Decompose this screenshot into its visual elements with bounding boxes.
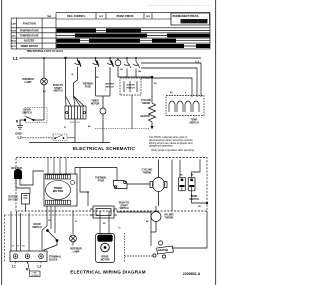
svg-text:MOTOR: MOTOR [53,189,63,193]
svg-text:SWITCH: SWITCH [105,86,114,88]
wires: console top to timer [48,158,66,175]
svg-text:Verify proper operation after: Verify proper operation after servicing. [151,148,195,152]
wire: lamp to door switch [43,85,45,120]
timer chart row 4 bars (timer motor) [56,44,210,48]
interior lamp (schematic) [41,78,48,85]
drive motor (wiring) [96,234,115,263]
wires: console to cabinet drops [47,191,208,248]
thermal fuse branch (schematic) [93,58,114,108]
heater element (schematic) [118,76,156,129]
wire: fuse to cycling therm [127,183,150,185]
push-to-start switch (wiring) [90,206,117,218]
svg-text:MOTOR: MOTOR [101,258,110,261]
door switch dashed enclosure (schematic) [25,108,47,123]
timer contact bank (schematic) [65,96,86,143]
svg-text:SWITCH: SWITCH [126,87,135,89]
wires into terminal block [11,211,47,251]
svg-text:TEMPERATURE: TEMPERATURE [20,35,39,38]
svg-text:THERMAL: THERMAL [82,83,94,86]
svg-text:OFF: OFF [99,16,104,18]
svg-text:TIMER MOTOR: TIMER MOTOR [20,45,38,48]
timer motor (schematic) [100,108,106,143]
svg-text:L1: L1 [12,265,16,269]
svg-text:CYCLING: CYCLING [141,100,152,102]
timer chart row 1 bars (temperature) [56,29,210,33]
svg-text:54321: 54321 [70,121,81,124]
svg-text:BUZZER: BUZZER [8,197,18,199]
push-to-start switch (schematic) [65,57,81,96]
centrifugal switch label (schematic) [105,84,115,89]
interior lamp (wiring) [70,235,77,245]
wire: motor switch to boundary [131,95,133,129]
svg-text:SWITCH: SWITCH [119,208,128,210]
svg-text:CENTRIF.: CENTRIF. [105,84,115,86]
svg-text:MOTOR: MOTOR [91,103,100,105]
svg-text:CAM: CAM [12,22,17,25]
timer chart row labels [11,29,39,48]
svg-text:SWITCH: SWITCH [22,111,32,114]
svg-text:SWITCH: SWITCH [189,122,198,124]
svg-text:W: W [75,221,77,223]
svg-text:HEATER: HEATER [158,249,168,252]
svg-text:OFF: OFF [146,16,151,18]
wire: motor dashed return [124,233,126,262]
wire: buzzer leads [16,182,30,194]
svg-text:2209831 A: 2209831 A [183,272,201,276]
wire: lamp branch [43,58,45,78]
svg-text:THERM.: THERM. [142,171,151,174]
svg-text:L2: L2 [38,265,42,269]
svg-text:W: W [72,74,74,76]
wire color labels (wiring) [49,175,202,226]
svg-text:BLOCK: BLOCK [49,259,58,262]
timer chart frame [11,13,210,49]
junction dots on top rail [43,57,137,59]
svg-text:HEATER: HEATER [140,115,150,118]
svg-text:ELECTRICAL SCHEMATIC: ELECTRICAL SCHEMATIC [73,146,136,151]
timer chart row 3 bars (buzzer) [56,39,210,43]
console dashed enclosure [16,158,207,212]
dashed boundary (schematic cabinet) [95,128,150,130]
cabinet dashed border [5,214,101,216]
svg-text:THERM.: THERM. [142,103,151,105]
timer chart row 2 bars (aux temperature) [56,34,210,38]
svg-text:ON / OFF: ON / OFF [8,199,19,201]
svg-text:BUZZ: BUZZ [11,41,17,43]
timer chart header labels [12,15,151,25]
svg-text:L1: L1 [13,56,19,61]
svg-text:SWITCH: SWITCH [32,226,42,229]
nested wires to temp selector [141,63,201,97]
ground screw tag [28,262,41,277]
motor switch box (schematic) [120,58,141,95]
svg-text:PERMANENT PRESS: PERMANENT PRESS [173,14,199,18]
svg-text:SWITCH: SWITCH [53,91,62,93]
svg-text:HIGH: HIGH [11,30,16,32]
svg-text:FUNCTION: FUNCTION [23,22,36,25]
svg-text:SCREW: SCREW [31,275,39,277]
drive motor circle (schematic) [115,58,121,77]
svg-text:MTR.: MTR. [11,46,16,48]
wire: left drop to door switch [80,168,88,206]
svg-text:START: START [54,87,62,90]
wire: console top bus [75,167,117,169]
svg-text:dangerous operation.: dangerous operation. [149,143,174,147]
TIMER CHART [148,4,210,6]
svg-text:L1: L1 [196,59,200,63]
svg-text:AUX.: AUX. [12,35,17,38]
svg-text:REG. FABRICS: REG. FABRICS [67,15,85,18]
wire color labels (schematic) [43,69,187,129]
svg-text:PUSH-TO: PUSH-TO [119,203,130,205]
door switch (schematic) [20,117,45,121]
svg-text:PERM. PRESS: PERM. PRESS [116,15,133,18]
hi-limit thermostat (wiring) [151,206,161,232]
ground (schematic) [17,120,23,129]
svg-text:MOTOR: MOTOR [126,85,135,87]
svg-text:KNITS/DEL. CARE: KNITS/DEL. CARE [185,20,208,24]
svg-text:LAMP: LAMP [25,81,32,84]
svg-text:L2: L2 [18,136,22,140]
belt switch (schematic) [53,134,75,141]
svg-text:FUSE: FUSE [98,179,105,182]
svg-text:TIME INTERVALS NOT TO SCALE: TIME INTERVALS NOT TO SCALE [27,50,64,53]
svg-text:BUZZER: BUZZER [24,40,34,43]
temperature selector switch (schematic) [166,96,204,116]
terminal block (wiring) [10,251,47,262]
wire: L1 top rail [20,57,202,59]
svg-text:THERM.: THERM. [164,216,173,219]
timer assembly (wiring) [44,174,77,206]
svg-text:TIME: TIME [47,16,52,18]
temp switch (wiring) [172,160,200,211]
svg-text:FUSE: FUSE [85,86,92,88]
heater (wiring) [125,241,174,258]
wire: L2 bottom rail [22,137,53,139]
svg-text:W: W [12,246,14,248]
caution note [149,135,195,152]
svg-text:TEMP.: TEMP. [191,120,198,122]
svg-text:TIMER: TIMER [91,101,98,103]
svg-text:START: START [120,204,128,207]
svg-text:ELECTRICAL WIRING DIAGRAM: ELECTRICAL WIRING DIAGRAM [70,270,146,275]
svg-text:PUSH-TO: PUSH-TO [53,85,64,87]
svg-text:SWITCH: SWITCH [189,198,199,201]
svg-text:TEMPERATURE: TEMPERATURE [20,29,39,32]
permanent press / knits legend box [171,13,210,25]
wire: push-to-start to heater drop [117,211,151,213]
svg-text:W: W [64,127,66,129]
svg-text:LAMP: LAMP [73,250,80,253]
